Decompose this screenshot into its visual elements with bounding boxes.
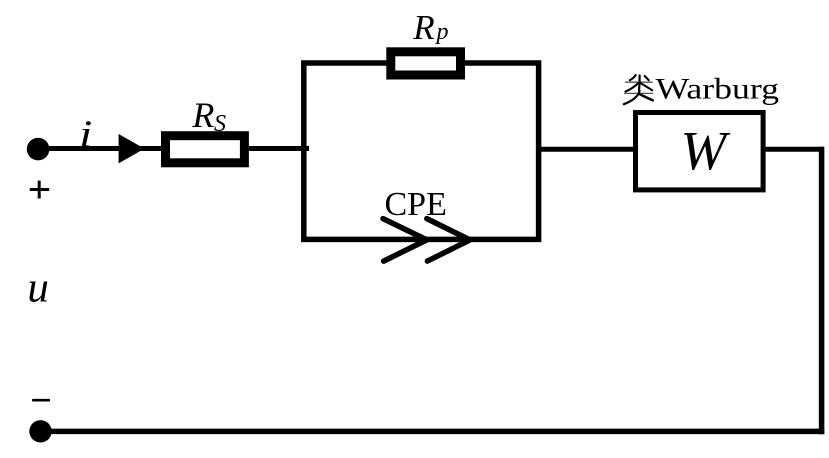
label minus — [32, 399, 50, 402]
wire: RS to parallel network — [249, 146, 309, 151]
label W — [680, 120, 730, 181]
label i — [79, 114, 92, 156]
svg-text:i: i — [79, 114, 92, 156]
svg-text:R: R — [191, 95, 214, 135]
node terminal bottom-left (negative) — [29, 420, 51, 442]
label RS — [191, 95, 226, 137]
current arrow — [119, 134, 145, 163]
label CPE — [385, 186, 447, 223]
label u — [27, 265, 49, 312]
wire: bottom return — [41, 429, 825, 435]
resistor Rp — [391, 52, 461, 75]
svg-text:W: W — [680, 120, 730, 181]
svg-text:R: R — [412, 8, 434, 47]
svg-text:S: S — [214, 111, 226, 137]
wire: terminal to resistor RS — [39, 146, 164, 151]
svg-text:CPE: CPE — [385, 186, 447, 223]
wire: parallel network to Warburg box — [539, 147, 636, 152]
wire: Warburg box to right edge — [766, 147, 824, 152]
Warburg element W box — [636, 113, 764, 190]
label + — [30, 181, 49, 199]
label Rp — [412, 8, 448, 47]
node terminal top-left (positive) — [27, 138, 50, 161]
parallel network frame (Rp branch top, CPE branch bottom) — [304, 63, 539, 239]
wire: right vertical drop — [819, 147, 825, 434]
svg-text:Warburg: Warburg — [656, 73, 780, 106]
CPE element (double chevron) — [383, 219, 470, 262]
resistor RS — [166, 136, 245, 163]
label 类Warburg — [624, 73, 779, 106]
svg-text:p: p — [435, 19, 449, 45]
svg-text:u: u — [27, 265, 49, 312]
